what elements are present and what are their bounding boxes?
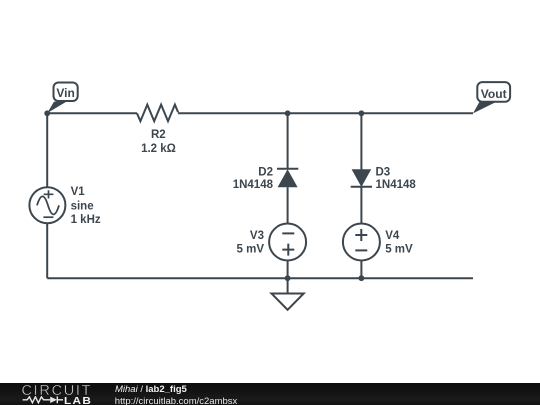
svg-text:1N4148: 1N4148: [376, 179, 417, 191]
svg-text:V3: V3: [250, 230, 264, 242]
svg-text:Vin: Vin: [56, 86, 74, 100]
svg-text:5 mV: 5 mV: [385, 244, 413, 256]
svg-text:5 mV: 5 mV: [237, 244, 265, 256]
svg-text:V4: V4: [385, 230, 400, 242]
svg-text:V1: V1: [71, 186, 86, 198]
svg-text:R2: R2: [151, 129, 166, 141]
svg-text:D2: D2: [258, 167, 273, 179]
svg-text:1 kHz: 1 kHz: [71, 214, 101, 226]
svg-text:Vout: Vout: [481, 87, 507, 101]
svg-text:sine: sine: [71, 200, 94, 212]
svg-text:1N4148: 1N4148: [233, 179, 274, 191]
svg-text:D3: D3: [376, 167, 391, 179]
svg-text:1.2 kΩ: 1.2 kΩ: [141, 143, 176, 155]
